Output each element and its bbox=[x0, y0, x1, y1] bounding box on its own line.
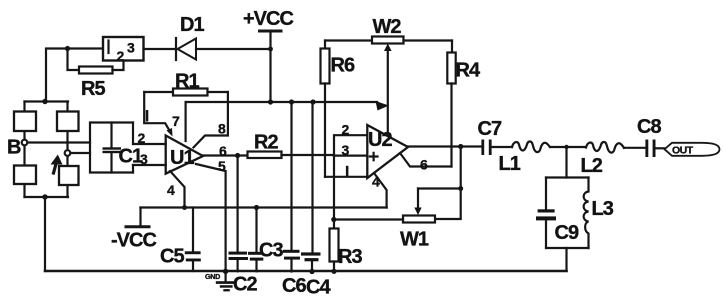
wire L2 to C8 bbox=[624, 147, 646, 149]
label C7 bbox=[478, 118, 502, 140]
diode D1 bbox=[176, 38, 196, 60]
junction R3 bottom bbox=[331, 269, 336, 274]
pin 6 label (U2) bbox=[420, 157, 428, 173]
U2 pin 3 wire bbox=[334, 155, 367, 157]
label R6 bbox=[331, 55, 355, 77]
plus mark (U2) bbox=[370, 153, 378, 161]
label -VCC bbox=[111, 230, 156, 252]
pin 3 label (box) bbox=[127, 40, 135, 56]
label W1 bbox=[400, 229, 429, 251]
svg-text:L1: L1 bbox=[499, 153, 521, 175]
pin 7 label (U1) bbox=[172, 113, 180, 129]
node A arrow bbox=[51, 155, 63, 174]
op-amp U1 bbox=[166, 136, 203, 174]
svg-text:C1: C1 bbox=[119, 146, 143, 168]
svg-text:B: B bbox=[7, 137, 21, 159]
pin 1 label (U1) bbox=[146, 110, 149, 122]
potentiometer W2 bbox=[325, 37, 452, 137]
svg-text:4: 4 bbox=[372, 174, 380, 190]
inductor L3 bbox=[584, 178, 589, 249]
label C8 bbox=[637, 116, 661, 138]
inductor L1 bbox=[512, 141, 550, 152]
feedback drop to W1 bbox=[418, 147, 463, 220]
svg-text:3: 3 bbox=[342, 142, 350, 158]
OUT connector symbol bbox=[665, 143, 720, 156]
label U1 bbox=[170, 147, 194, 169]
svg-text:+VCC: +VCC bbox=[243, 8, 293, 30]
tank bottom to ground bus bbox=[565, 248, 567, 271]
label GND bbox=[205, 272, 220, 281]
+V supply rail to U2 with arrowhead bbox=[186, 101, 389, 111]
pin 8 label (U1) bbox=[218, 121, 226, 137]
label R3 bbox=[338, 246, 362, 268]
svg-text:R6: R6 bbox=[331, 55, 355, 77]
junction pin4 on -VCC bus bbox=[182, 205, 187, 210]
svg-text:C4: C4 bbox=[306, 277, 331, 299]
svg-text:-VCC: -VCC bbox=[111, 230, 156, 252]
inductor L2 bbox=[586, 142, 624, 153]
capacitor C2 drop from output node bbox=[229, 156, 249, 272]
tank circuit C9 / L3 bbox=[536, 178, 589, 249]
svg-text:C8: C8 bbox=[637, 116, 661, 138]
wire bridge bottom to ground bus bbox=[44, 197, 46, 271]
label C2 bbox=[233, 274, 257, 296]
resistor R2 bbox=[248, 152, 335, 159]
junction at +VCC drop bbox=[268, 47, 273, 52]
node B terminal circle bbox=[22, 140, 28, 146]
svg-text:R2: R2 bbox=[254, 132, 278, 154]
label C9 bbox=[555, 222, 579, 244]
svg-text:5: 5 bbox=[218, 158, 226, 174]
pin 1 label (U2) bbox=[346, 166, 349, 177]
label C1 bbox=[119, 146, 143, 168]
wire node B to C1 bbox=[27, 141, 90, 143]
pin 2 label (U2) bbox=[342, 122, 350, 138]
svg-text:U1: U1 bbox=[170, 147, 194, 169]
svg-text:W2: W2 bbox=[373, 16, 402, 38]
capacitor C6 bbox=[283, 102, 300, 272]
output node dot bbox=[458, 144, 463, 149]
label R4 bbox=[456, 60, 481, 82]
label +VCC bbox=[243, 8, 293, 30]
svg-text:6: 6 bbox=[219, 143, 227, 159]
U1 pin 6 output wire bbox=[203, 154, 248, 156]
svg-text:3: 3 bbox=[127, 40, 135, 56]
U1 pin 3 wire bbox=[133, 164, 166, 166]
pin 2 label (box) bbox=[117, 48, 125, 64]
label C3 bbox=[259, 240, 283, 262]
svg-text:R4: R4 bbox=[456, 60, 481, 82]
pin 4 label (U1) bbox=[167, 182, 175, 198]
label B bbox=[7, 137, 21, 159]
junction W1 wire to R3 bbox=[331, 217, 336, 222]
pin 2 label (U1) bbox=[138, 130, 146, 146]
label L2 bbox=[581, 155, 603, 177]
wire from sensor box pin1 left and down to bridge top bbox=[46, 49, 103, 102]
wire box to D1 bbox=[144, 48, 177, 50]
resistor R5 bbox=[68, 49, 124, 74]
capacitor C8 bbox=[645, 140, 664, 158]
offset wire to U2 lower corner bbox=[325, 176, 367, 178]
wire L1 to L2 with tank tap bbox=[550, 146, 586, 148]
resistor R4 bbox=[447, 41, 455, 167]
label C6 bbox=[282, 275, 306, 297]
U1 pin 2 wire bbox=[133, 143, 166, 145]
label R2 bbox=[254, 132, 278, 154]
svg-text:2: 2 bbox=[342, 122, 350, 138]
svg-text:4: 4 bbox=[167, 182, 175, 198]
U1 pin 4 lead to -VCC bus bbox=[170, 171, 185, 208]
svg-text:R3: R3 bbox=[338, 246, 362, 268]
label R5 bbox=[81, 78, 105, 100]
U2 pin 6 output lead bbox=[400, 153, 452, 167]
svg-text:L3: L3 bbox=[592, 198, 614, 220]
sensor box with pins 1,2,3 bbox=[103, 37, 144, 61]
pin 5 label (U1) bbox=[218, 158, 226, 174]
label D1 bbox=[180, 14, 204, 36]
svg-text:R5: R5 bbox=[81, 78, 105, 100]
label W2 bbox=[373, 16, 402, 38]
bridge bottom junction bbox=[42, 194, 47, 199]
svg-text:C3: C3 bbox=[259, 240, 283, 262]
main output line bbox=[408, 145, 482, 147]
svg-text:D1: D1 bbox=[180, 14, 204, 36]
svg-text:8: 8 bbox=[218, 121, 226, 137]
capacitor C5 bbox=[185, 208, 201, 272]
node junction on box wire bbox=[65, 46, 70, 51]
pin 3 label (U1) bbox=[140, 151, 148, 167]
-VCC power symbol bbox=[126, 208, 149, 227]
potentiometer W1 bbox=[334, 189, 435, 223]
resistor R3 bbox=[330, 229, 339, 272]
capacitor C1 with connecting loop bbox=[90, 123, 133, 173]
op-amp U2 bbox=[367, 125, 408, 178]
svg-text:2: 2 bbox=[117, 48, 125, 64]
label R1 bbox=[175, 71, 199, 93]
tank tap junction bbox=[564, 145, 568, 149]
bridge sensor network bbox=[14, 102, 79, 198]
vertical from pin wires down to R3 bbox=[333, 156, 335, 229]
label C4 bbox=[306, 277, 331, 299]
-VCC bus bbox=[141, 206, 387, 208]
resistor R6 bbox=[321, 41, 330, 177]
svg-text:OUT: OUT bbox=[672, 145, 694, 157]
svg-text:L2: L2 bbox=[581, 155, 603, 177]
node A terminal circle bbox=[65, 150, 71, 156]
label L3 bbox=[592, 198, 614, 220]
U2 pin 2 wire riser bbox=[334, 135, 367, 155]
svg-text:C7: C7 bbox=[478, 118, 502, 140]
U1 pin 1 wire with arrow into op-amp bbox=[144, 92, 172, 137]
capacitor C4 bbox=[301, 102, 321, 274]
svg-text:2: 2 bbox=[138, 130, 146, 146]
U1 pin 5 lead to ground bbox=[196, 164, 226, 271]
U2 pin 4 lead bbox=[374, 173, 387, 208]
bridge top junction bbox=[42, 99, 47, 104]
ground symbol bbox=[216, 269, 236, 292]
wire node A to C1 bottom bbox=[70, 152, 90, 154]
U1 pin 7 lead bbox=[185, 102, 187, 141]
capacitor C7 bbox=[481, 140, 512, 156]
ground bus bbox=[45, 270, 567, 273]
capacitor C3 bbox=[248, 205, 263, 271]
label OUT bbox=[672, 145, 694, 157]
svg-text:7: 7 bbox=[172, 113, 180, 129]
+VCC power symbol bbox=[260, 31, 282, 102]
svg-text:W1: W1 bbox=[400, 229, 429, 251]
U1 pin 8 lead from R1 right bbox=[194, 92, 228, 148]
label U2 bbox=[368, 129, 392, 151]
pin 3 label (U2) bbox=[342, 142, 350, 158]
pin 4 label (U2) bbox=[372, 174, 380, 190]
output node junction bbox=[235, 153, 240, 158]
svg-text:C9: C9 bbox=[555, 222, 579, 244]
rail junction dots bbox=[268, 99, 316, 104]
label L1 bbox=[499, 153, 521, 175]
pin 6 label (U1) bbox=[219, 143, 227, 159]
resistor R1 bbox=[144, 89, 228, 96]
svg-text:GND: GND bbox=[205, 272, 220, 281]
wire D1 to +VCC vertical bbox=[196, 48, 271, 50]
svg-text:C5: C5 bbox=[160, 246, 184, 268]
svg-text:R1: R1 bbox=[175, 71, 199, 93]
wire tap down to tank bbox=[565, 147, 567, 178]
svg-text:C6: C6 bbox=[282, 275, 306, 297]
svg-text:6: 6 bbox=[420, 157, 428, 173]
svg-text:C2: C2 bbox=[233, 274, 257, 296]
label C5 bbox=[160, 246, 184, 268]
